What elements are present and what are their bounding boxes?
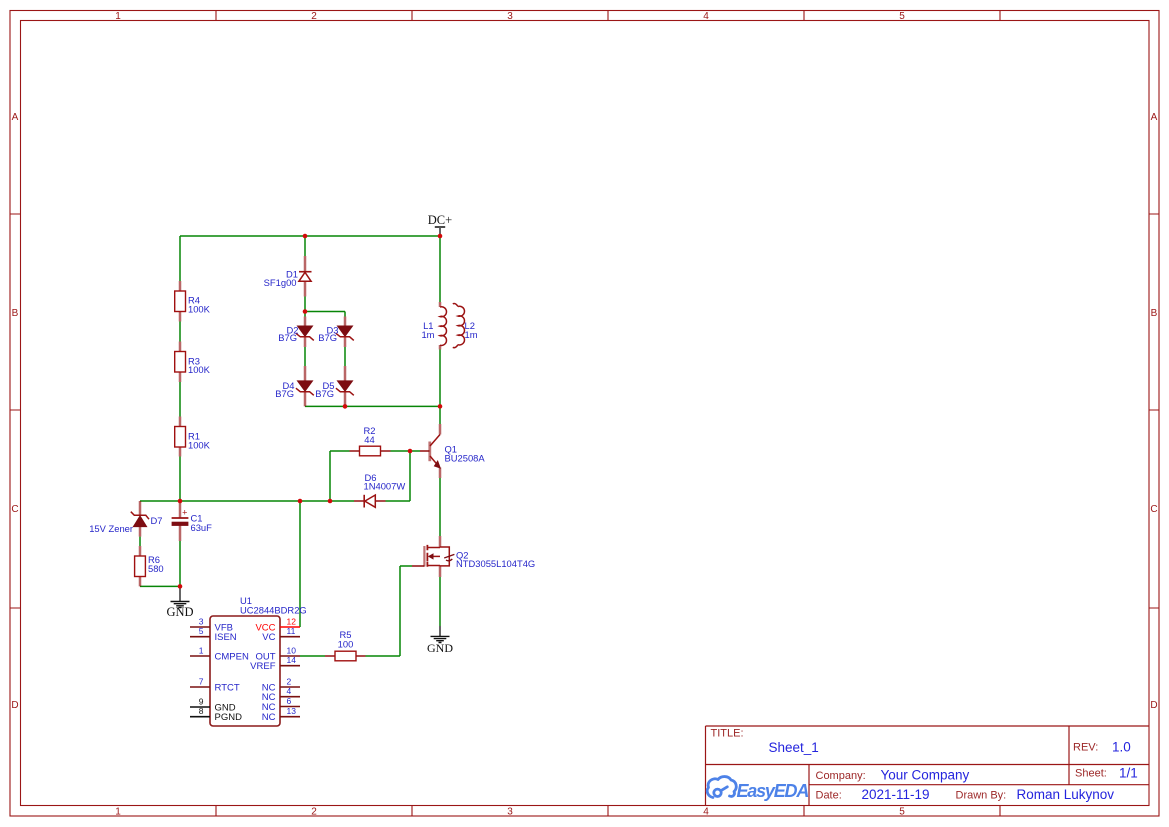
svg-text:PGND: PGND bbox=[215, 712, 243, 723]
wire mid horizontal bbox=[140, 500, 354, 502]
svg-text:B: B bbox=[12, 308, 19, 319]
junction dots bbox=[178, 234, 443, 589]
wire C1 bottom bbox=[179, 541, 181, 586]
svg-text:+: + bbox=[182, 508, 187, 518]
pin leads R4 bbox=[179, 281, 182, 322]
resistor R5 bbox=[335, 629, 356, 661]
pin leads R1 bbox=[179, 417, 182, 457]
svg-text:Sheet_1: Sheet_1 bbox=[769, 740, 819, 755]
svg-text:8: 8 bbox=[199, 706, 204, 716]
wire L1 to node bbox=[439, 350, 441, 407]
pin leads Q1 collector emitter bbox=[439, 424, 442, 478]
U1 pin 6 NC bbox=[262, 696, 300, 713]
pin leads R2 bbox=[350, 450, 391, 452]
wire OUT left bbox=[300, 655, 325, 657]
svg-text:5: 5 bbox=[899, 807, 905, 818]
diode D1 bbox=[264, 269, 312, 288]
pin lead Q1 base bbox=[420, 450, 430, 452]
wire right branch DC to L1 bbox=[439, 236, 441, 302]
U1 pin 7 RTCT bbox=[190, 677, 240, 694]
svg-text:1.0: 1.0 bbox=[1112, 740, 1131, 755]
wire R4-R3 bbox=[179, 322, 181, 342]
wire R1-node bbox=[179, 457, 181, 502]
EasyEDA logo bbox=[707, 777, 808, 801]
wire left branch upper bbox=[179, 236, 181, 281]
svg-text:RTCT: RTCT bbox=[215, 683, 240, 694]
resistor R3 bbox=[175, 352, 211, 375]
pin leads R5 bbox=[325, 655, 366, 657]
svg-text:D: D bbox=[11, 700, 18, 711]
wire bridge top bbox=[305, 312, 345, 317]
svg-text:1m: 1m bbox=[465, 329, 478, 340]
svg-text:2: 2 bbox=[311, 807, 317, 818]
wire D6 right bbox=[386, 451, 411, 501]
ground GND left bbox=[166, 586, 193, 619]
svg-text:3: 3 bbox=[507, 11, 513, 22]
node bridge bottom D5 bbox=[343, 404, 348, 409]
svg-text:2: 2 bbox=[287, 677, 292, 687]
svg-text:10: 10 bbox=[287, 646, 297, 656]
svg-text:11: 11 bbox=[287, 626, 296, 636]
svg-text:3: 3 bbox=[199, 617, 204, 627]
wire node to Q1 collector bbox=[439, 406, 441, 424]
node bridge top bbox=[303, 309, 308, 314]
pin lead C1 bottom bbox=[179, 526, 182, 542]
svg-text:100K: 100K bbox=[188, 364, 211, 375]
svg-text:VC: VC bbox=[262, 632, 275, 643]
svg-text:C: C bbox=[11, 504, 18, 515]
svg-text:Your Company: Your Company bbox=[881, 768, 970, 783]
diode D5 zener bbox=[315, 380, 354, 399]
wire R2 right to base bbox=[391, 450, 421, 452]
svg-text:1: 1 bbox=[115, 807, 121, 818]
svg-text:REV:: REV: bbox=[1073, 742, 1098, 754]
svg-text:CMPEN: CMPEN bbox=[215, 652, 249, 663]
wire R2 left drop bbox=[330, 451, 350, 501]
svg-text:B7G: B7G bbox=[318, 332, 337, 343]
U1 pin 4 NC bbox=[262, 686, 300, 703]
diode D4 zener bbox=[275, 380, 314, 399]
inductor L2 bbox=[453, 304, 478, 348]
wire D7 to R6 bbox=[139, 537, 141, 546]
wire D1 top bbox=[304, 236, 306, 256]
svg-text:6: 6 bbox=[287, 696, 292, 706]
pin lead C1 top bbox=[179, 501, 182, 518]
wire R3-R1 bbox=[179, 382, 181, 417]
node mid R2 bbox=[328, 499, 333, 504]
IC U1 bbox=[190, 595, 307, 726]
U1 pin 10 OUT bbox=[255, 646, 300, 663]
wire Q2 source to gnd bbox=[439, 577, 441, 626]
diode D7 zener bbox=[89, 512, 162, 534]
U1 pin 12 VCC bbox=[255, 617, 300, 634]
svg-text:4: 4 bbox=[703, 11, 709, 22]
wire Q1 emitter to Q2 drain bbox=[439, 478, 441, 536]
resistor R2 bbox=[360, 425, 381, 456]
svg-text:12: 12 bbox=[287, 617, 297, 627]
svg-text:B7G: B7G bbox=[278, 332, 297, 343]
node top DC+ bbox=[438, 234, 443, 239]
svg-text:63uF: 63uF bbox=[191, 522, 213, 533]
svg-text:580: 580 bbox=[148, 563, 164, 574]
ground GND right bbox=[427, 626, 453, 655]
net flag DC+ bbox=[428, 213, 452, 236]
pin leads D3 bbox=[344, 317, 347, 348]
pin leads D1 bbox=[304, 256, 307, 297]
pin leads R6 bbox=[139, 546, 142, 586]
svg-text:100: 100 bbox=[338, 638, 354, 649]
wire bridge bottom rail bbox=[305, 405, 440, 407]
TITLEBLOCK bbox=[706, 726, 1150, 806]
svg-text:4: 4 bbox=[703, 807, 709, 818]
svg-text:EasyEDA: EasyEDA bbox=[737, 781, 809, 801]
wire top rail bbox=[180, 235, 440, 237]
svg-text:Drawn By:: Drawn By: bbox=[956, 790, 1007, 802]
resistor R6 bbox=[135, 554, 164, 576]
svg-text:4: 4 bbox=[287, 686, 292, 696]
svg-text:A: A bbox=[1151, 112, 1158, 123]
svg-text:GND: GND bbox=[427, 641, 453, 655]
svg-text:DC+: DC+ bbox=[428, 213, 452, 227]
svg-text:Date:: Date: bbox=[816, 790, 842, 802]
SCHEMATIC bbox=[140, 236, 440, 656]
svg-text:D7: D7 bbox=[151, 515, 163, 526]
svg-text:NTD3055L104T4G: NTD3055L104T4G bbox=[456, 558, 535, 569]
svg-text:1: 1 bbox=[115, 11, 121, 22]
svg-text:3: 3 bbox=[507, 807, 513, 818]
svg-text:14: 14 bbox=[287, 655, 297, 665]
svg-text:1: 1 bbox=[199, 646, 204, 656]
pin leads D6 bbox=[354, 500, 386, 502]
svg-text:B: B bbox=[1151, 308, 1158, 319]
svg-text:B7G: B7G bbox=[275, 388, 294, 399]
U1 pin 9 GND bbox=[190, 697, 236, 714]
U1 pin 5 ISEN bbox=[190, 626, 237, 643]
svg-text:5: 5 bbox=[899, 11, 905, 22]
svg-text:D: D bbox=[1150, 700, 1157, 711]
svg-text:1m: 1m bbox=[421, 329, 434, 340]
svg-text:2021-11-19: 2021-11-19 bbox=[862, 787, 930, 802]
U1 pin 2 NC bbox=[262, 677, 300, 694]
svg-text:15V Zener: 15V Zener bbox=[89, 523, 133, 534]
capacitor C1 bbox=[172, 508, 213, 533]
pin leads D4 bbox=[304, 366, 307, 406]
wire bridge middles bbox=[305, 347, 345, 366]
node top D1 bbox=[303, 234, 308, 239]
svg-text:13: 13 bbox=[287, 706, 297, 716]
U1 pin 13 NC bbox=[262, 706, 300, 723]
diode D6 bbox=[364, 472, 406, 507]
wire R6 bottom horizontal bbox=[140, 585, 180, 587]
svg-text:SF1g00: SF1g00 bbox=[264, 277, 297, 288]
svg-text:1N4007W: 1N4007W bbox=[364, 481, 406, 492]
U1 pin 3 VFB bbox=[190, 617, 233, 634]
pin leads D7 bbox=[139, 501, 142, 537]
U1 pin 8 PGND bbox=[190, 706, 242, 723]
svg-text:UC2844BDR2G: UC2844BDR2G bbox=[240, 605, 307, 616]
svg-text:7: 7 bbox=[199, 677, 204, 687]
svg-text:Sheet:: Sheet: bbox=[1075, 768, 1107, 780]
svg-text:TITLE:: TITLE: bbox=[711, 728, 744, 740]
node mid vcc bbox=[298, 499, 303, 504]
pin leads L1 bbox=[439, 302, 442, 350]
svg-text:44: 44 bbox=[364, 434, 374, 445]
svg-text:GND: GND bbox=[166, 605, 193, 619]
svg-text:1/1: 1/1 bbox=[1119, 766, 1138, 781]
svg-text:C: C bbox=[1150, 504, 1157, 515]
resistor R1 bbox=[175, 427, 211, 451]
wire D1 bottom bbox=[304, 297, 306, 312]
svg-text:B7G: B7G bbox=[315, 388, 334, 399]
svg-text:BU2508A: BU2508A bbox=[445, 452, 486, 463]
pin lead Q2 gate bbox=[412, 565, 424, 567]
diode D2 zener bbox=[278, 324, 314, 343]
svg-text:VREF: VREF bbox=[250, 661, 276, 672]
wire VCC vertical bbox=[299, 501, 301, 627]
wire OUT right to gate bbox=[366, 566, 413, 656]
U1 pin 1 CMPEN bbox=[190, 646, 249, 663]
pin leads Q2 bbox=[439, 536, 442, 577]
pin leads D2 bbox=[304, 317, 307, 348]
pin leads D5 bbox=[344, 366, 347, 406]
node Q1 base bbox=[408, 449, 413, 454]
svg-text:100K: 100K bbox=[188, 303, 211, 314]
node mid left bbox=[178, 499, 183, 504]
inductor L1 bbox=[421, 307, 446, 346]
transistor Q1 bbox=[430, 435, 486, 469]
diode D3 zener bbox=[318, 324, 354, 343]
U1 pin 14 VREF bbox=[250, 655, 300, 672]
svg-text:NC: NC bbox=[262, 712, 276, 723]
svg-text:2: 2 bbox=[311, 11, 317, 22]
svg-text:A: A bbox=[12, 112, 19, 123]
node gnd left bbox=[178, 584, 183, 589]
node bridge bottom right bbox=[438, 404, 443, 409]
svg-text:5: 5 bbox=[199, 626, 204, 636]
svg-text:ISEN: ISEN bbox=[215, 632, 237, 643]
resistor R4 bbox=[175, 291, 211, 314]
svg-text:Company:: Company: bbox=[816, 770, 866, 782]
svg-text:Roman Lukynov: Roman Lukynov bbox=[1017, 787, 1115, 802]
svg-text:9: 9 bbox=[199, 697, 204, 707]
U1 pin 11 VC bbox=[262, 626, 300, 643]
transistor Q2 bbox=[424, 545, 535, 569]
svg-text:100K: 100K bbox=[188, 439, 211, 450]
pin leads R3 bbox=[179, 342, 182, 383]
